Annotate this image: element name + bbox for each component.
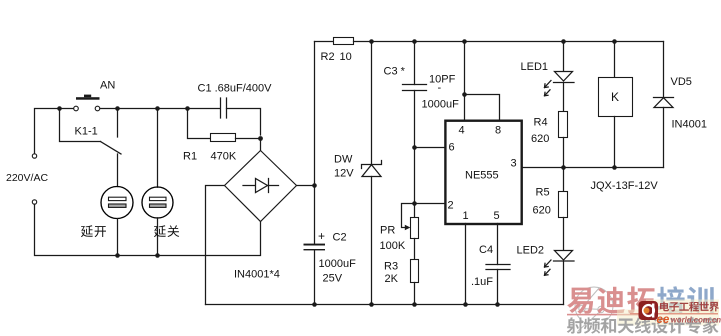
svg-text:3: 3	[511, 158, 517, 170]
watermark logo circle	[575, 287, 613, 331]
node N junction pin2	[412, 201, 417, 206]
resistor R3	[411, 260, 419, 305]
resistor R2	[334, 38, 354, 45]
node lamp1 junction	[115, 253, 120, 258]
node K junction	[561, 39, 566, 44]
svg-text:2K: 2K	[385, 273, 399, 285]
label 延关	[154, 225, 179, 237]
terminal 220V bottom	[32, 200, 36, 204]
svg-text:K: K	[611, 90, 619, 104]
svg-text:100K: 100K	[380, 240, 406, 252]
svg-text:LED1: LED1	[521, 61, 549, 73]
svg-text:10: 10	[340, 51, 352, 63]
relay contact K1-1	[60, 109, 122, 155]
capacitor C3	[403, 42, 427, 148]
svg-text:1000uF: 1000uF	[319, 258, 357, 270]
svg-text:NE555: NE555	[465, 170, 499, 182]
svg-text:2: 2	[448, 200, 454, 212]
lamp 延关	[142, 109, 173, 256]
wire C1 right	[227, 109, 261, 136]
wire main top	[100, 108, 220, 110]
wire pin 1	[465, 224, 467, 305]
svg-text:6: 6	[449, 142, 455, 154]
svg-text:ee: ee	[657, 314, 670, 326]
svg-text:12V: 12V	[334, 168, 354, 180]
node D junction	[185, 106, 190, 111]
svg-text:PR: PR	[380, 225, 395, 237]
watermark big text 培训	[657, 286, 713, 313]
ground rail wire	[206, 304, 564, 306]
node DW-gnd junction	[369, 302, 374, 307]
label 延开	[81, 225, 106, 237]
diode VD5	[654, 42, 674, 168]
wire pin 6	[415, 147, 446, 149]
node A junction	[57, 106, 62, 111]
svg-text:-: -	[438, 82, 442, 94]
op-amp U1 NE555	[445, 121, 521, 224]
svg-text:R5: R5	[536, 187, 550, 199]
terminal 220V top	[32, 154, 36, 158]
watermark underline left	[567, 314, 650, 316]
svg-text:R4: R4	[534, 117, 548, 129]
svg-text:R1: R1	[183, 151, 197, 163]
wire AC hot input	[35, 109, 74, 154]
svg-text:25V: 25V	[323, 273, 343, 285]
watermark beige url background	[617, 310, 719, 326]
node pin1-gnd junction	[463, 302, 468, 307]
zener diode DW	[362, 42, 382, 305]
watermark gray text 射频和天线设计专家	[567, 317, 719, 334]
svg-text:+: +	[318, 229, 325, 243]
svg-text:4: 4	[459, 125, 465, 137]
watermark beige logo background	[646, 300, 719, 313]
node R3-gnd junction	[412, 302, 417, 307]
node B junction	[115, 106, 120, 111]
svg-text:K1-1: K1-1	[75, 126, 98, 138]
wire pin 2	[415, 203, 446, 205]
svg-text:5: 5	[494, 210, 500, 222]
lamp 延开	[101, 154, 133, 256]
svg-text:1000uF: 1000uF	[422, 99, 460, 111]
wire pin 3	[522, 167, 664, 169]
resistor R4	[559, 112, 568, 168]
node C4-gnd junction	[495, 302, 500, 307]
node E junction	[258, 136, 263, 141]
wire node M to N	[414, 148, 416, 204]
node L junction	[612, 39, 617, 44]
relay K	[599, 42, 633, 168]
node C junction	[155, 106, 160, 111]
svg-text:620: 620	[533, 205, 551, 217]
svg-text:C4: C4	[479, 244, 493, 256]
svg-text:R2: R2	[321, 51, 335, 63]
wire to bridge top	[260, 139, 262, 151]
potentiometer PR	[411, 204, 419, 260]
watermark underline right	[630, 313, 718, 315]
svg-text:JQX-13F-12V: JQX-13F-12V	[591, 180, 659, 192]
resistor R1	[188, 109, 261, 142]
svg-text:C2: C2	[333, 232, 347, 244]
LED2	[545, 251, 575, 305]
potentiometer PR wiper arrow	[402, 204, 415, 231]
svg-text:DW: DW	[334, 154, 353, 166]
node M junction pin6	[412, 145, 417, 150]
svg-text:LED2: LED2	[517, 245, 545, 257]
capacitor C4	[486, 224, 510, 305]
top rail wire	[315, 41, 334, 43]
node I junction	[412, 39, 417, 44]
node J junction	[462, 39, 467, 44]
wire + column	[314, 42, 316, 244]
capacitor C1	[221, 98, 227, 118]
svg-text:.1uF: .1uF	[471, 276, 493, 288]
svg-text:C3 *: C3 *	[384, 66, 406, 78]
bridge rectifier IN4001*4	[225, 151, 297, 222]
wire bridge right to +rail	[297, 185, 315, 187]
svg-text:220V/AC: 220V/AC	[6, 172, 48, 184]
svg-text:VD5: VD5	[671, 76, 692, 88]
node F junction	[312, 183, 317, 188]
node H junction	[369, 39, 374, 44]
svg-text:470K: 470K	[211, 151, 237, 163]
wire bridge left to ground rail	[206, 186, 225, 305]
node pin4/8 junction	[462, 92, 467, 97]
watermark eeworld logo	[639, 301, 659, 320]
top rail wire right	[354, 41, 664, 43]
capacitor C2	[304, 244, 326, 305]
pushbutton AN	[74, 95, 100, 111]
node G junction	[312, 302, 317, 307]
LED1	[545, 42, 575, 112]
svg-text:C1 .68uF/400V: C1 .68uF/400V	[198, 83, 273, 95]
wire pins 4 and 8	[465, 42, 500, 121]
node lamp2 junction	[155, 253, 160, 258]
node pin3-R4 junction	[561, 165, 566, 170]
svg-text:8: 8	[495, 125, 501, 137]
svg-text:R3: R3	[384, 261, 398, 273]
watermark text 电子工程世界	[660, 302, 719, 312]
svg-text:1: 1	[463, 210, 469, 222]
svg-text:IN4001: IN4001	[672, 119, 707, 131]
watermark big text 易迪拓	[567, 286, 654, 313]
svg-text:IN4001*4: IN4001*4	[234, 269, 280, 281]
node pin3-K junction	[612, 165, 617, 170]
svg-text:10PF: 10PF	[429, 74, 456, 86]
svg-text:world.com.cn: world.com.cn	[671, 315, 721, 324]
wire AC neutral to lamp rail	[35, 204, 261, 255]
svg-text:AN: AN	[100, 80, 115, 92]
resistor R5	[559, 168, 568, 251]
svg-text:620: 620	[531, 133, 549, 145]
